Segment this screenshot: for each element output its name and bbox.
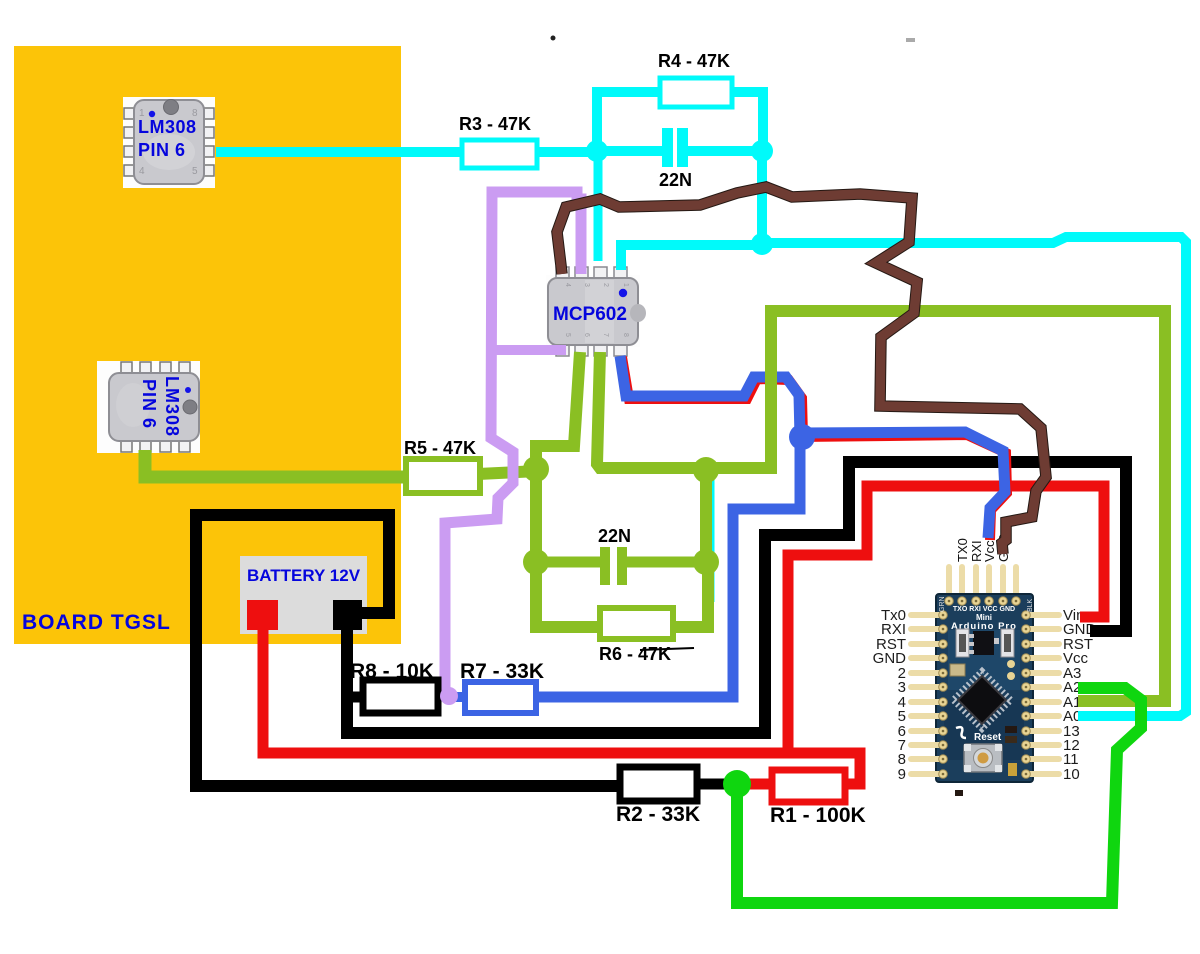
wire cyan node C1 up to R4	[597, 92, 664, 153]
resistor R4 47K	[660, 78, 732, 107]
svg-text:3: 3	[583, 283, 590, 287]
svg-text:TXO RXI VCC GND: TXO RXI VCC GND	[953, 606, 1015, 613]
svg-text:PIN 6: PIN 6	[138, 140, 186, 160]
wire cyan node C1 down to MCP602 pin2	[594, 152, 603, 261]
stray mark dot	[551, 36, 556, 41]
svg-text:TX0: TX0	[955, 538, 970, 562]
node C1 cyan	[586, 140, 608, 162]
svg-text:8: 8	[622, 333, 629, 337]
svg-text:BOARD TGSL: BOARD TGSL	[22, 611, 171, 634]
svg-text:GRN: GRN	[939, 596, 946, 612]
capacitor C3 22N plates	[662, 128, 673, 167]
node C2 cyan	[751, 140, 773, 162]
wire green capacitor C5 right to node D	[627, 557, 706, 568]
node C4 cyan	[751, 233, 773, 255]
resistor R8 10K	[363, 680, 438, 713]
wire black battery- loop to R2	[196, 515, 622, 786]
wire red battery+ to R1 right	[263, 628, 860, 784]
svg-text:LM308: LM308	[162, 376, 182, 437]
svg-text:PIN 6: PIN 6	[139, 379, 159, 429]
svg-text:4: 4	[564, 283, 571, 287]
resistor R3 47K	[462, 140, 537, 168]
wire green node G1 to Arduino A2	[737, 688, 1141, 903]
svg-text:R6 - 47K: R6 - 47K	[599, 644, 671, 664]
wire black battery- to Arduino GND	[347, 462, 1126, 733]
resistor R7 33K	[465, 682, 536, 713]
wire blue node B1 to R7 right	[534, 435, 800, 697]
wire green node A to node C	[530, 469, 542, 562]
svg-text:R2 - 33K: R2 - 33K	[616, 803, 700, 826]
battery BT1 12V body	[240, 556, 367, 634]
wire green R6 right up to node D	[671, 564, 708, 627]
resistor R2 33K	[620, 767, 697, 801]
svg-text:R4 - 47K: R4 - 47K	[658, 51, 730, 71]
svg-text:1: 1	[622, 283, 629, 287]
svg-text:R8 - 10K: R8 - 10K	[350, 660, 434, 683]
resistor R1 100K	[772, 770, 845, 802]
wire purple MCP602 pin3 to node P1	[445, 192, 581, 694]
node D green	[693, 549, 719, 575]
capacitor C5 22N plates	[600, 547, 610, 585]
svg-text:R7 - 33K: R7 - 33K	[460, 660, 544, 683]
node B green	[693, 457, 719, 483]
svg-text:BATTERY 12V: BATTERY 12V	[247, 566, 361, 585]
Arduino Pro Mini module	[873, 533, 1097, 796]
wire cyan R4 to node C2	[728, 92, 763, 153]
battery negative terminal	[333, 600, 362, 630]
node G1 green junction R1/R2	[723, 770, 751, 798]
battery positive terminal	[247, 600, 278, 630]
resistor R6 47K	[600, 608, 673, 639]
svg-text:Vcc: Vcc	[982, 540, 997, 562]
op-amp U1 MCP602	[546, 267, 646, 356]
wire green MCP602 pin7 to node B	[597, 352, 706, 468]
node B1 blue	[789, 424, 815, 450]
svg-text:2: 2	[602, 283, 609, 287]
wire green node A to MCP602 pin6	[536, 352, 580, 470]
node A green	[523, 456, 549, 482]
svg-text:Reset: Reset	[974, 732, 1002, 743]
svg-text:5: 5	[564, 333, 571, 337]
op-amp U3 LM308 (lower, rotated)	[97, 361, 200, 453]
svg-text:22N: 22N	[659, 170, 692, 190]
wire cyan capacitor C3 right to node C2	[688, 146, 762, 156]
board TGSL yellow background	[14, 46, 401, 644]
wire cyan node C4 to Arduino A0	[762, 237, 1186, 716]
svg-text:5: 5	[192, 166, 198, 177]
wire green node B to node D	[700, 470, 712, 562]
svg-text:MCP602: MCP602	[553, 304, 627, 325]
svg-text:6: 6	[583, 333, 590, 337]
svg-text:R3 - 47K: R3 - 47K	[459, 114, 531, 134]
wire green node B to Arduino A1	[706, 311, 1165, 701]
wire green node C to capacitor C5 left	[536, 557, 600, 568]
wire cyan node C4 to MCP602 pin1	[621, 245, 762, 270]
svg-text:R1 - 100K: R1 - 100K	[770, 804, 866, 827]
svg-text:R5 - 47K: R5 - 47K	[404, 438, 476, 458]
wire black battery- to R8	[341, 692, 366, 703]
node C green	[523, 549, 549, 575]
wire cyan node C2 to node C4	[757, 152, 767, 244]
wire red R1 left to node G1	[735, 779, 774, 790]
wire purple branch to MCP602 pin5	[491, 345, 566, 355]
svg-text:LM308: LM308	[138, 117, 197, 137]
wire red tee to Arduino Vin	[788, 486, 1104, 751]
wire black R2 right to node G1	[694, 779, 740, 790]
wire cyan node C1 to capacitor C3 left	[597, 146, 662, 156]
wire brown MCP602 pin4 to Arduino GND top pin	[557, 187, 1046, 554]
wire cyan R3 to node C1	[533, 147, 600, 157]
op-amp U2 LM308 (top)	[123, 97, 215, 188]
wire blue MCP602 pin8 to node B1	[620, 356, 800, 437]
wire green LM308 lower pin6 to R5	[145, 450, 408, 477]
wire green node C down to R6 left	[536, 562, 602, 627]
wire cyan LM308 pin6 to R3	[216, 147, 466, 157]
svg-text:10: 10	[1063, 766, 1080, 783]
wire red underlay MCP602 pin8 to Arduino Vcc	[622, 357, 1007, 540]
stray mark dash	[906, 38, 915, 42]
svg-text:22N: 22N	[598, 526, 631, 546]
node P1 purple	[440, 687, 458, 705]
wire blue R7 left to node P1	[448, 692, 468, 702]
wire green R5 right to node A	[478, 471, 538, 474]
resistor R5 47K	[406, 459, 480, 493]
wire cyan remnant sliver near node B/D	[712, 478, 715, 602]
svg-text:9: 9	[898, 766, 906, 783]
svg-text:4: 4	[139, 166, 145, 177]
svg-text:7: 7	[602, 333, 609, 337]
wire blue node B1 to Arduino Vcc top pin	[800, 432, 1005, 538]
svg-text:BLK: BLK	[1027, 598, 1034, 612]
